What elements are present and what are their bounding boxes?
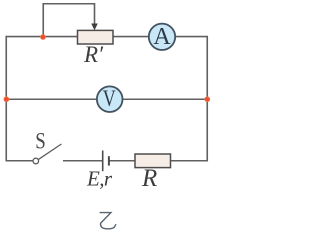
switch S circle xyxy=(33,158,39,164)
wire bottom rail left segment to switch xyxy=(6,160,34,162)
svg-text:S: S xyxy=(35,129,46,154)
svg-text:A: A xyxy=(153,24,171,50)
wire resistor to right rail segment xyxy=(170,160,208,162)
wire battery to resistor segment xyxy=(110,160,136,162)
resistor R body xyxy=(135,154,171,168)
wire rheostat wiper loop xyxy=(43,4,94,37)
node junction dot middle-right xyxy=(204,96,210,102)
wire top rail left segment xyxy=(6,36,78,38)
wire left rail xyxy=(5,36,7,161)
node junction dot top xyxy=(40,34,46,40)
battery short plate xyxy=(108,156,110,165)
wire top rail middle segment xyxy=(113,36,149,38)
rheostat R' body xyxy=(78,30,114,44)
wire middle rail left segment xyxy=(6,98,97,100)
wire top rail right segment xyxy=(175,36,208,38)
voltmeter V xyxy=(97,86,123,112)
node junction dot middle-left xyxy=(4,96,10,102)
svg-text:R′: R′ xyxy=(83,42,104,67)
battery long plate xyxy=(102,151,104,172)
svg-text:R: R xyxy=(141,165,157,192)
svg-text:E,r: E,r xyxy=(86,167,113,191)
wire middle rail right segment xyxy=(122,98,207,100)
wire switch to battery segment xyxy=(63,160,102,162)
label 乙 (drawn glyph) xyxy=(100,213,116,229)
switch blade xyxy=(38,144,61,160)
ammeter A xyxy=(149,24,175,50)
wire right rail xyxy=(206,36,208,161)
svg-text:V: V xyxy=(103,86,116,111)
wiper arrowhead xyxy=(91,24,98,31)
